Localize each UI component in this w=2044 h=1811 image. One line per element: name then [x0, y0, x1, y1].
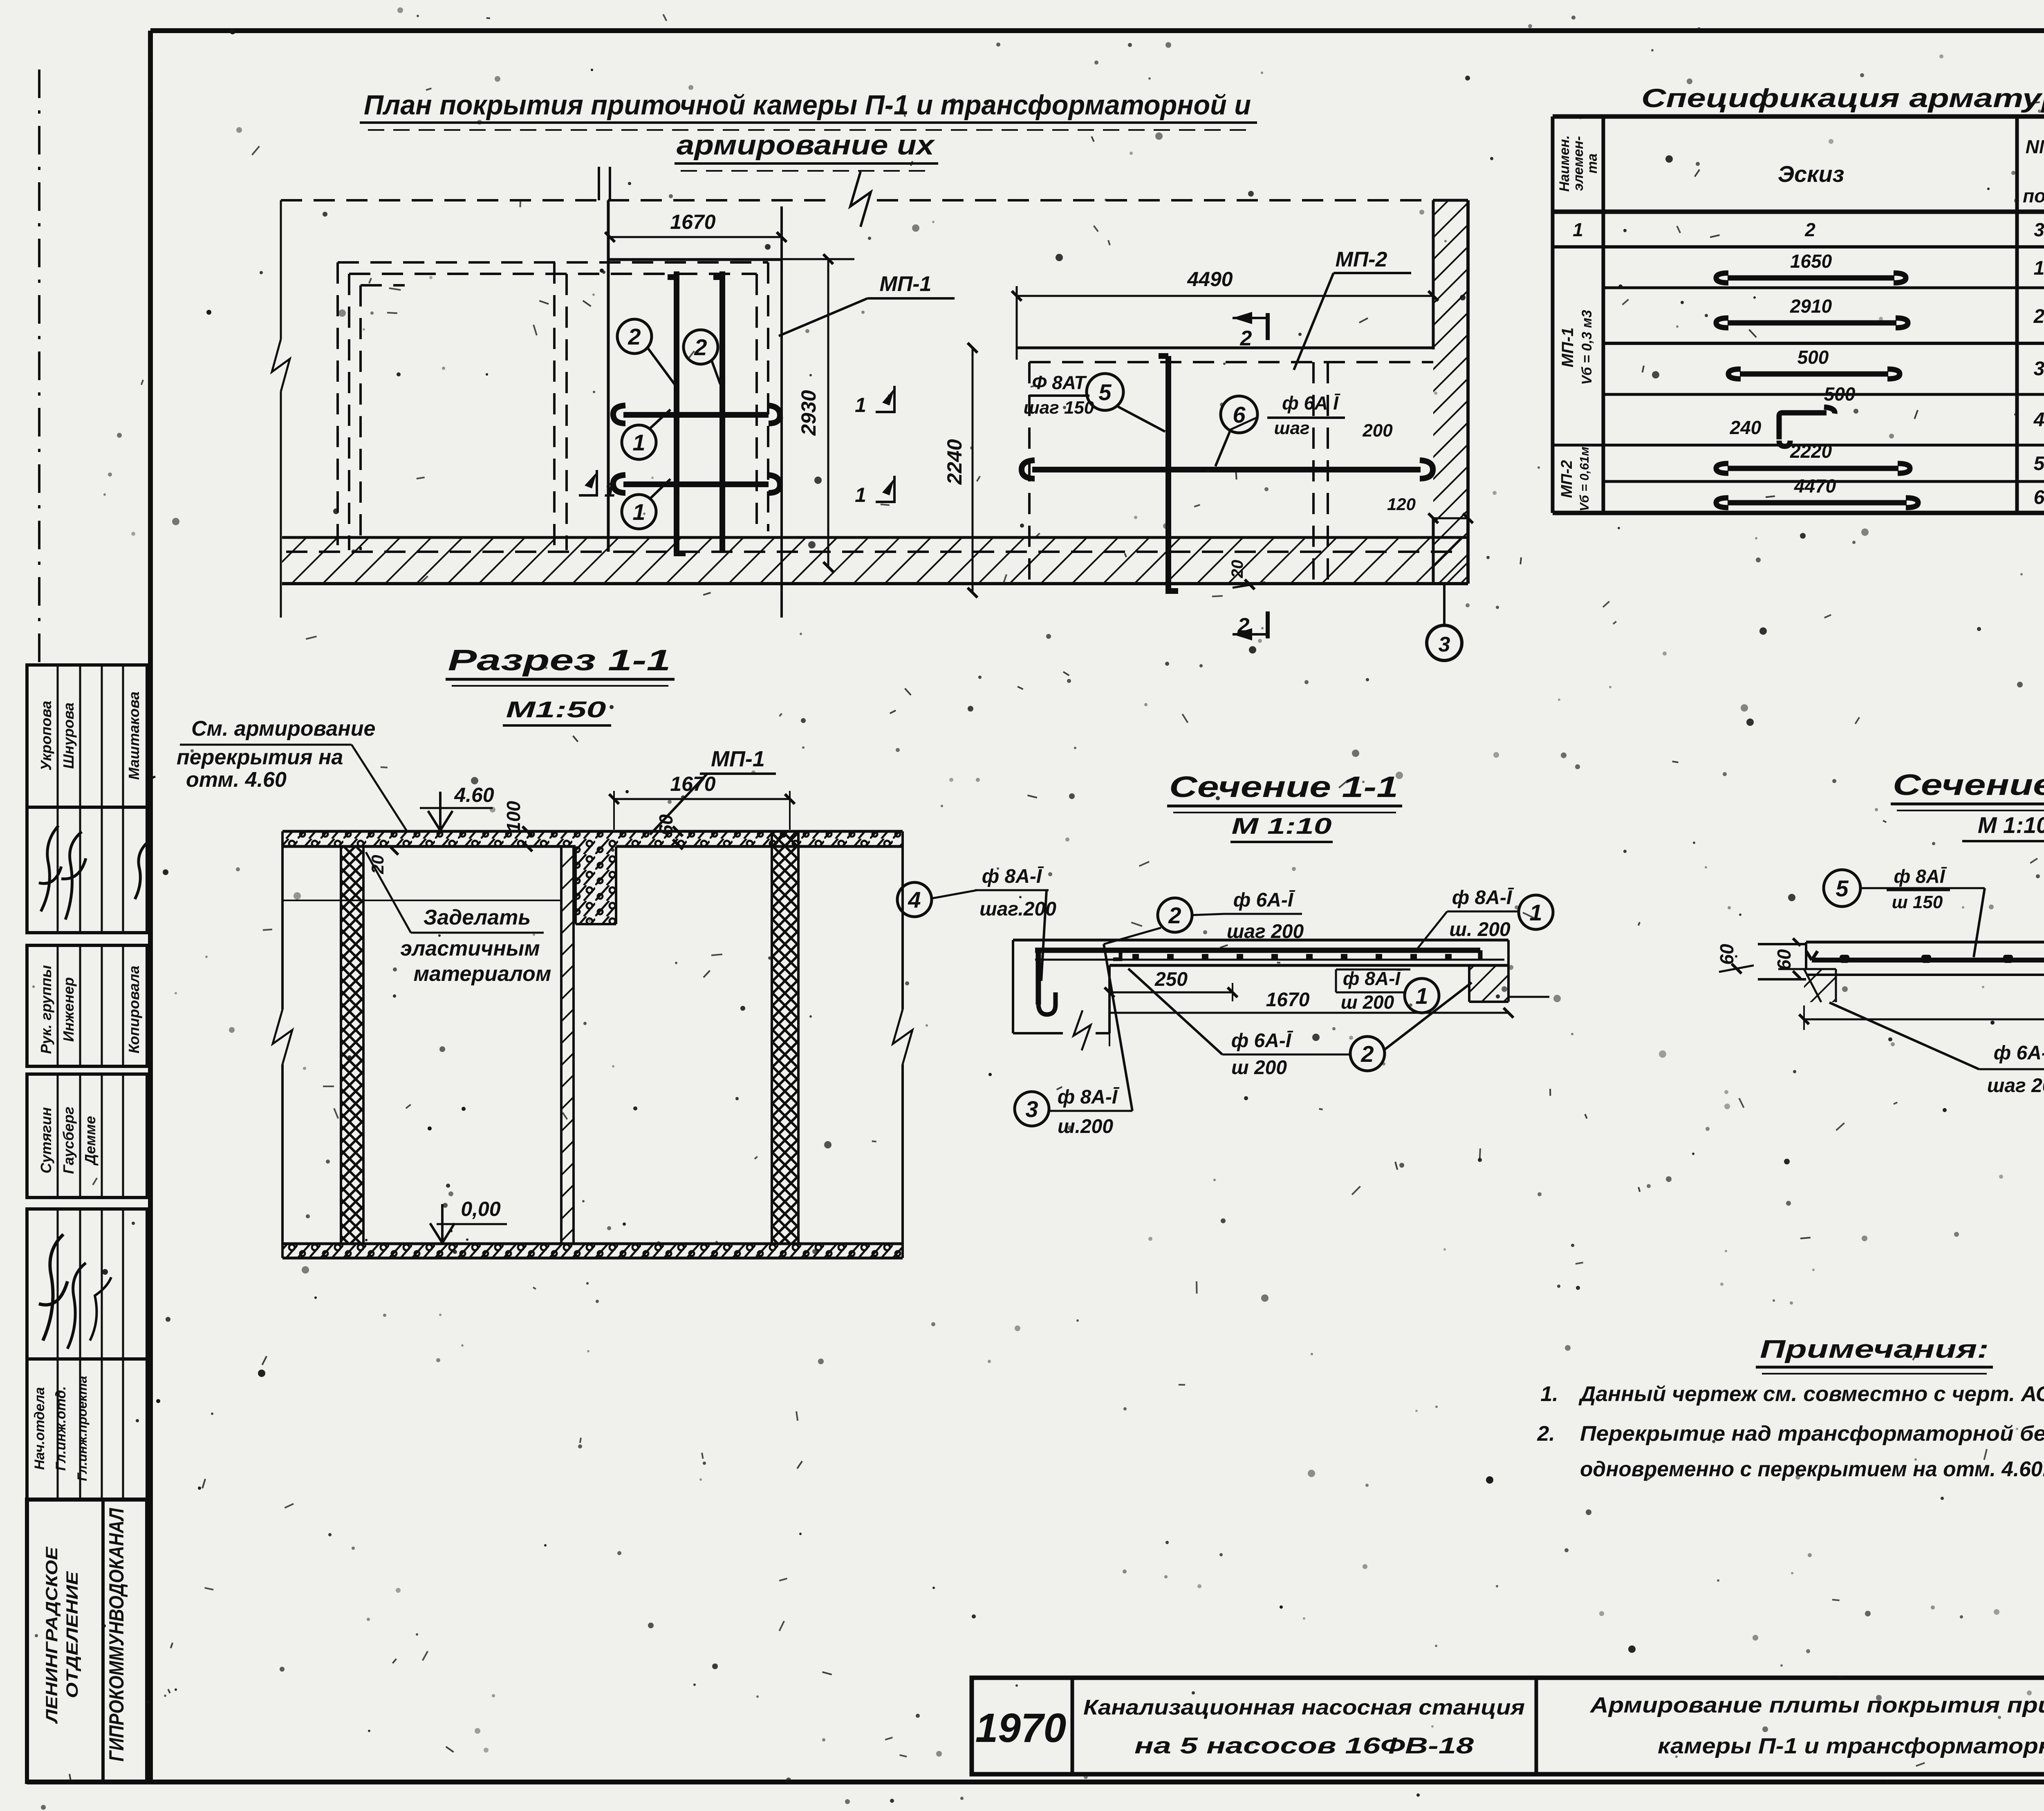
- svg-text:Заделать: Заделать: [424, 906, 531, 929]
- middle wall hatched: [561, 846, 574, 1244]
- svg-text:1: 1: [2034, 257, 2044, 279]
- svg-text:500: 500: [1797, 347, 1829, 368]
- svg-text:ОТДЕЛЕНИЕ: ОТДЕЛЕНИЕ: [63, 1571, 81, 1698]
- svg-text:2930: 2930: [797, 390, 820, 436]
- svg-text:Инженер: Инженер: [60, 977, 77, 1042]
- rebar dots s22: [1840, 955, 1849, 963]
- left extension line with break: [280, 200, 282, 339]
- svg-text:Нач.отдела: Нач.отдела: [32, 1387, 47, 1470]
- svg-text:20: 20: [368, 855, 387, 875]
- dim 1670 s11: [1109, 1012, 1508, 1014]
- svg-text:1.: 1.: [1540, 1382, 1558, 1406]
- svg-text:МП-1: МП-1: [711, 747, 765, 771]
- svg-text:эластичным: эластичным: [400, 937, 540, 960]
- hidden wall outline room P-1 (inner): [361, 284, 405, 287]
- distribution bar dots: [1132, 954, 1139, 960]
- hidden middle wall faces: [553, 262, 556, 550]
- bottom wall band: [282, 537, 1468, 584]
- svg-text:3: 3: [2034, 358, 2044, 380]
- section marks 1-1 right top: [876, 386, 894, 412]
- svg-text:Vб = 0,3 м3: Vб = 0,3 м3: [1579, 310, 1595, 385]
- paper fold dash-dot line: [38, 69, 40, 664]
- right wall band: [1433, 200, 1468, 584]
- svg-text:5: 5: [1098, 379, 1112, 405]
- circle4 label top left: [897, 882, 932, 917]
- svg-text:Наимен.: Наимен.: [1557, 135, 1572, 192]
- section mark 2 top: [1266, 313, 1270, 340]
- svg-text:М 1:10: М 1:10: [1978, 812, 2044, 838]
- svg-text:500: 500: [1824, 383, 1856, 405]
- svg-text:2: 2: [2033, 306, 2044, 327]
- svg-text:ГИПРОКОММУНВОДОКАНАЛ: ГИПРОКОММУНВОДОКАНАЛ: [105, 1508, 128, 1762]
- circle3 label: [1015, 1092, 1049, 1126]
- svg-text:камеры П-1 и трансформаторной: камеры П-1 и трансформаторной: [1658, 1734, 2044, 1758]
- svg-text:200: 200: [1362, 421, 1393, 441]
- svg-text:материалом: материалом: [414, 962, 551, 986]
- break mark on top edge: [850, 172, 871, 227]
- pos4 bent bar leg with hook: [1036, 950, 1041, 1005]
- svg-text:ф 8А-Ī: ф 8А-Ī: [1343, 968, 1403, 989]
- right break edge: [901, 831, 904, 1010]
- stamp column outer boxes: [27, 665, 147, 807]
- svg-text:2: 2: [1360, 1041, 1374, 1067]
- svg-text:шаг 200: шаг 200: [1227, 921, 1304, 942]
- dim 1670 plan: [610, 236, 782, 238]
- svg-text:Спецификация арматуры на МП: Спецификация арматуры на МП-1 и МП-2: [1641, 83, 2044, 113]
- svg-text:шаг 150: шаг 150: [1024, 398, 1094, 418]
- svg-text:Vб = 0,61м: Vб = 0,61м: [1577, 447, 1591, 512]
- circle5 label s22: [1824, 870, 1860, 907]
- right support hatched s11: [1469, 965, 1508, 1002]
- svg-text:2: 2: [628, 324, 641, 349]
- svg-text:6: 6: [2034, 487, 2044, 508]
- top rebar thick s11: [1035, 948, 1480, 953]
- svg-text:План покрытия приточной каме: План покрытия приточной камеры П-1 и тра…: [364, 90, 1251, 121]
- svg-text:Эскиз: Эскиз: [1778, 161, 1845, 187]
- svg-text:1: 1: [855, 484, 866, 506]
- svg-text:См. армирование: См. армирование: [191, 717, 375, 741]
- svg-text:4: 4: [2033, 409, 2044, 431]
- svg-text:ф 6А Ī: ф 6А Ī: [1282, 392, 1340, 414]
- svg-text:1: 1: [632, 430, 645, 455]
- svg-text:Разрез 1-1: Разрез 1-1: [448, 644, 671, 677]
- MP-2 slab top edge: [1017, 347, 1433, 349]
- svg-text:60: 60: [1773, 949, 1795, 970]
- circle1 label top right: [1519, 895, 1553, 929]
- svg-text:Гаусберг: Гаусберг: [60, 1107, 77, 1174]
- svg-text:Гл.инж.отд.: Гл.инж.отд.: [53, 1386, 69, 1471]
- svg-text:армирование их: армирование их: [677, 130, 936, 161]
- svg-text:ф 8А-Ī: ф 8А-Ī: [1058, 1086, 1120, 1108]
- svg-text:4: 4: [908, 887, 921, 913]
- svg-text:шаг: шаг: [1274, 418, 1309, 438]
- svg-text:4.60: 4.60: [454, 783, 494, 806]
- right wall crosshatched: [772, 831, 798, 1244]
- left break edge: [281, 831, 284, 1010]
- label f6A circle6: [1221, 396, 1257, 433]
- svg-text:ф 6А-Ī: ф 6А-Ī: [1994, 1042, 2044, 1064]
- svg-text:МП-2: МП-2: [1558, 460, 1576, 498]
- svg-text:60: 60: [1716, 944, 1737, 965]
- svg-text:ш. 200: ш. 200: [1449, 919, 1511, 940]
- svg-text:Ф 8АТ: Ф 8АТ: [1032, 372, 1087, 393]
- section marks 1-1 left: [579, 470, 597, 495]
- section mark 2 bottom: [1266, 611, 1270, 638]
- stamp signatures box: [39, 826, 61, 911]
- bottom rebar line with dots s11: [1035, 959, 1504, 961]
- svg-text:Примечания:: Примечания:: [1760, 1335, 1989, 1363]
- svg-text:2220: 2220: [1790, 441, 1832, 462]
- svg-text:1670: 1670: [670, 772, 715, 795]
- svg-text:Маштакова: Маштакова: [126, 692, 142, 780]
- spec table grid: [1551, 116, 1555, 513]
- svg-text:Сечение 2-2: Сечение 2-2: [1893, 769, 2044, 801]
- svg-text:на 5 насосов 16ФВ-18: на 5 насосов 16ФВ-18: [1134, 1733, 1474, 1758]
- dim 2240 s22: [1804, 1019, 2044, 1021]
- svg-text:Гл.инж.проекта: Гл.инж.проекта: [75, 1376, 90, 1481]
- svg-text:1650: 1650: [1790, 251, 1832, 272]
- svg-text:NN: NN: [2026, 136, 2044, 157]
- svg-text:2: 2: [1804, 219, 1815, 240]
- svg-text:МП-1: МП-1: [880, 272, 932, 296]
- edge beam pocket: [576, 846, 616, 924]
- svg-text:ш 200: ш 200: [1231, 1057, 1287, 1079]
- dim 1670 razrez: [614, 798, 790, 800]
- svg-text:2.: 2.: [1537, 1422, 1555, 1446]
- svg-text:Шнурова: Шнурова: [60, 703, 77, 769]
- svg-text:перекрытия на: перекрытия на: [177, 745, 343, 769]
- svg-text:ф 8А-Ī: ф 8А-Ī: [982, 866, 1044, 887]
- svg-text:1: 1: [1415, 983, 1428, 1009]
- rebar pos2 vertical bars MP-1: [668, 271, 686, 553]
- water level line: [282, 900, 561, 901]
- svg-text:ф 8АĪ: ф 8АĪ: [1894, 866, 1947, 887]
- svg-text:М 1:10: М 1:10: [1232, 813, 1332, 839]
- svg-text:Копировала: Копировала: [126, 966, 142, 1054]
- svg-text:5: 5: [1836, 875, 1849, 901]
- svg-text:2: 2: [1168, 902, 1181, 928]
- svg-text:Данный чертеж см. совместно: Данный чертеж см. совместно с черт. АС-3…: [1578, 1382, 2044, 1406]
- plan top edge hidden line: [281, 199, 834, 201]
- title block outline: [972, 1678, 2044, 1774]
- svg-text:1: 1: [632, 499, 645, 525]
- hidden wall outline room P-1 (outer): [338, 261, 768, 264]
- slab outline s22: [1806, 941, 2044, 944]
- slab at 4.60 with concrete hatch: [282, 831, 903, 846]
- svg-text:Перекрытие над трансформатор: Перекрытие над трансформаторной бетониро…: [1580, 1422, 2044, 1446]
- svg-text:Канализационная насосная с: Канализационная насосная станция: [1083, 1696, 1525, 1719]
- dim 250: [1109, 992, 1233, 994]
- svg-text:120: 120: [1387, 495, 1416, 514]
- svg-text:ш.200: ш.200: [1058, 1116, 1113, 1137]
- svg-text:Сечение 1-1: Сечение 1-1: [1169, 771, 1398, 804]
- MP-2 hidden wall edges: [1029, 361, 1433, 363]
- svg-text:2: 2: [694, 334, 707, 360]
- svg-text:1670: 1670: [1266, 989, 1310, 1011]
- position circles MP-1: [617, 319, 652, 354]
- svg-text:1: 1: [1573, 219, 1583, 240]
- grid axis circle 3: [1443, 584, 1446, 626]
- svg-text:Демме: Демме: [82, 1116, 99, 1166]
- svg-text:ф 6А-Ī: ф 6А-Ī: [1231, 1030, 1293, 1052]
- left wall crosshatched: [341, 846, 363, 1244]
- section marks 1-1 right bottom: [876, 476, 894, 502]
- svg-text:Сутягин: Сутягин: [38, 1107, 54, 1173]
- dim 2240 vertical: [972, 348, 974, 593]
- svg-text:Рук. группы: Рук. группы: [38, 965, 54, 1054]
- svg-text:поз: поз: [2023, 185, 2044, 206]
- svg-text:5: 5: [2034, 453, 2044, 475]
- svg-text:шаг 200: шаг 200: [1987, 1075, 2044, 1097]
- svg-text:МП-2: МП-2: [1336, 248, 1387, 271]
- stamp signatures box 2: [39, 1234, 67, 1341]
- circle2 label top: [1158, 898, 1192, 932]
- svg-text:2: 2: [1237, 614, 1250, 638]
- svg-text:Армирование плиты покрытия: Армирование плиты покрытия приточной: [1589, 1693, 2044, 1717]
- MP-1 slab solid edges: [607, 200, 610, 552]
- dim 4490: [1017, 295, 1433, 297]
- left support block s22: [1804, 969, 1836, 1002]
- svg-text:2910: 2910: [1790, 295, 1832, 317]
- svg-text:0,00: 0,00: [461, 1198, 501, 1220]
- svg-text:240: 240: [1730, 417, 1762, 438]
- svg-text:ф 8А-Ī: ф 8А-Ī: [1452, 887, 1514, 909]
- svg-text:ф 6А-Ī: ф 6А-Ī: [1233, 889, 1295, 911]
- svg-text:ЛЕНИНГРАДСКОЕ: ЛЕНИНГРАДСКОЕ: [43, 1546, 61, 1724]
- floor slab: [282, 1244, 903, 1258]
- slab outline s11: [1013, 939, 1508, 942]
- svg-text:МП-1: МП-1: [1559, 327, 1577, 367]
- rebar pos1 horizontal bars MP-1: [613, 405, 780, 423]
- rebar s22: [1812, 958, 2044, 963]
- rebar pos5 vertical bar MP-2: [1159, 356, 1178, 591]
- scan speckles: [715, 1241, 718, 1243]
- svg-text:3: 3: [1439, 633, 1450, 656]
- svg-text:та: та: [1585, 153, 1600, 173]
- svg-text:4470: 4470: [1794, 475, 1836, 497]
- svg-text:ш 150: ш 150: [1892, 892, 1943, 912]
- svg-text:1970: 1970: [975, 1705, 1066, 1751]
- svg-text:отм. 4.60: отм. 4.60: [186, 768, 287, 792]
- svg-text:3: 3: [1025, 1096, 1038, 1122]
- hidden wall outline room P-1 (middle): [349, 273, 757, 275]
- svg-text:ш 200: ш 200: [1341, 992, 1394, 1013]
- svg-text:1: 1: [604, 478, 616, 501]
- svg-text:Укропова: Укропова: [38, 701, 54, 771]
- svg-text:М1:50: М1:50: [506, 696, 606, 722]
- svg-text:3: 3: [2034, 219, 2044, 240]
- dim 2930 vertical: [827, 259, 829, 567]
- rebar pos6 horizontal bar MP-2: [1022, 460, 1433, 479]
- svg-text:элемен-: элемен-: [1571, 136, 1586, 191]
- svg-text:100: 100: [503, 801, 524, 832]
- svg-text:250: 250: [1154, 969, 1188, 990]
- svg-text:1: 1: [855, 394, 866, 416]
- svg-text:1670: 1670: [670, 210, 715, 233]
- svg-text:4490: 4490: [1187, 268, 1233, 291]
- svg-text:2240: 2240: [943, 439, 966, 485]
- svg-text:1: 1: [1529, 900, 1542, 925]
